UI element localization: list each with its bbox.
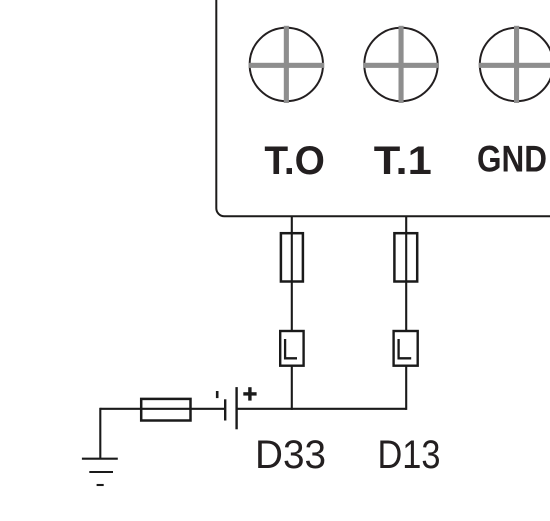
screw terminal pin T.0 [249,26,325,103]
resistor R1 [281,233,303,281]
wire lamp L1 to bottom net [291,366,293,410]
battery BT1 negative plate [224,399,226,420]
svg-text:D33: D33 [255,433,326,477]
resistor R2 [394,233,417,281]
terminal block body U1 [216,0,550,216]
lamp L2 [394,331,418,366]
screw terminal pin T.1 [363,26,439,103]
battery BT1 positive plate [235,387,237,429]
wire ground to battery negative [100,408,225,410]
resistor R3 [141,399,190,421]
ground symbol [82,459,118,485]
svg-text:T.1: T.1 [374,139,432,183]
lamp L1 [280,331,303,366]
battery BT1 negative tick [216,391,219,398]
battery plus sign [243,387,256,400]
wire T.0 to resistor and lamp L1 [291,217,293,331]
screw terminal pin GND [479,26,550,103]
svg-text:GND: GND [477,139,547,180]
wire lamp L2 to bottom net [405,366,407,410]
wire to ground [99,408,101,459]
wire T.1 to resistor and lamp L2 [405,217,407,331]
svg-text:D13: D13 [378,433,441,477]
wire battery positive to bottom net [237,408,407,410]
svg-text:T.O: T.O [264,139,325,183]
